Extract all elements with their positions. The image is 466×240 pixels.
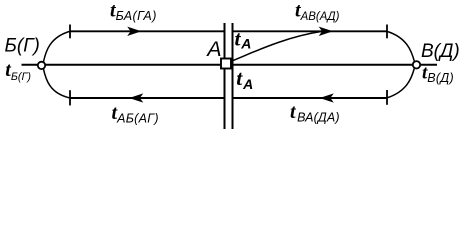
svg-text:В(Д): В(Д) bbox=[421, 41, 460, 62]
arrow on bottom-right track pointing left bbox=[321, 94, 334, 102]
wire: right station axis vertical double line at А bbox=[232, 23, 234, 129]
arrow on top-left track pointing right bbox=[128, 27, 141, 35]
svg-text:Б(Г): Б(Г) bbox=[5, 36, 40, 57]
node: station Б(Г) circle bbox=[38, 62, 45, 69]
wire: departure curve from station А up to top-right line bbox=[233, 31, 323, 60]
wire: deceleration curve from Б down to bottom-left line bbox=[43, 69, 69, 98]
wire: top-left track line (Б to А) bbox=[70, 30, 225, 32]
wire: top-right track line (А to В) bbox=[233, 30, 388, 32]
wire: acceleration curve from Б up to top-left line bbox=[43, 31, 69, 62]
wire: deceleration curve from top-right line down to В bbox=[387, 31, 414, 61]
node: station А square bbox=[221, 59, 231, 69]
tick mark bottom-right at x=387 bbox=[386, 90, 388, 105]
wire: bottom-right track line (В to А) bbox=[233, 97, 388, 99]
arrow on top-right track pointing right bbox=[320, 27, 333, 35]
wire: left station axis vertical double line at А bbox=[224, 23, 226, 129]
wire: acceleration curve from bottom-right line up to В bbox=[387, 68, 414, 98]
wire: middle main line between stations bbox=[22, 64, 438, 66]
svg-text:А: А bbox=[205, 37, 221, 61]
node: station В(Д) circle bbox=[413, 61, 420, 68]
arrow on bottom-left track pointing left bbox=[130, 94, 143, 102]
tick mark top-right at x=387 bbox=[386, 25, 388, 39]
tick mark top-left at x=70 bbox=[69, 25, 71, 39]
wire: bottom-left track line (А to Б) bbox=[70, 97, 225, 99]
tick mark bottom-left at x=70 bbox=[69, 90, 71, 105]
